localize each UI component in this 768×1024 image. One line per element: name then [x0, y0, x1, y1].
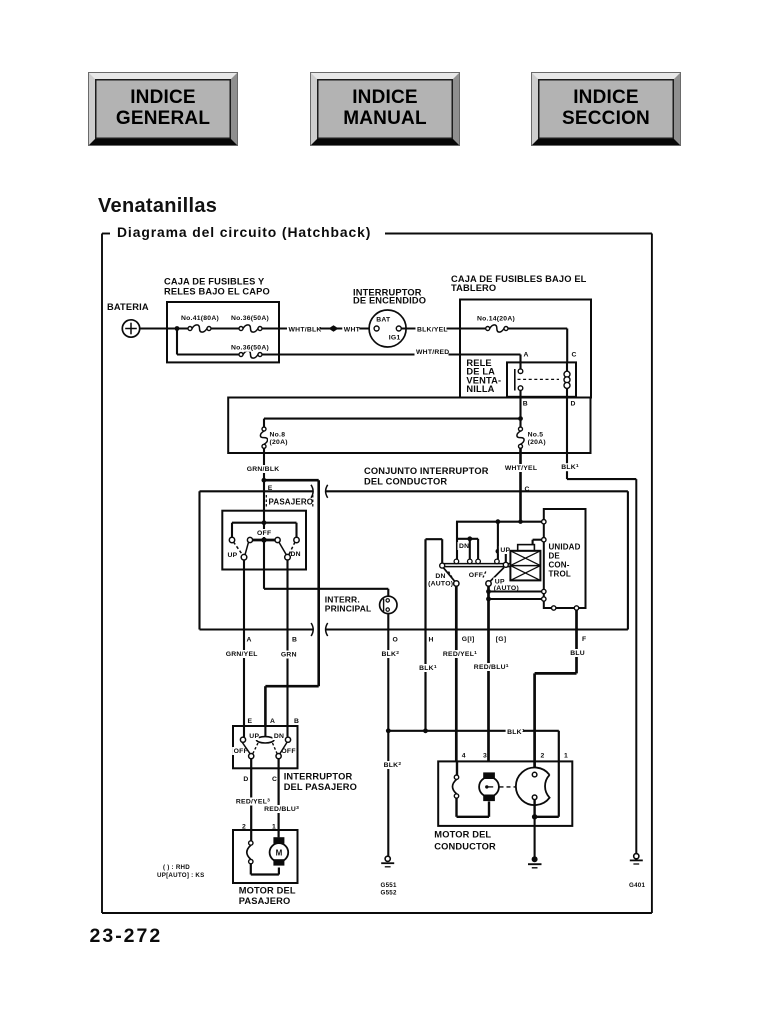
svg-text:UP: UP: [228, 552, 238, 559]
svg-text:UNIDAD: UNIDAD: [549, 543, 581, 552]
svg-text:GRN/BLK: GRN/BLK: [247, 466, 280, 473]
svg-text:(20A): (20A): [270, 439, 288, 446]
svg-text:23-272: 23-272: [90, 925, 163, 947]
svg-text:OFF: OFF: [257, 530, 271, 537]
svg-text:CON-: CON-: [549, 561, 570, 570]
svg-text:DE ENCENDIDO: DE ENCENDIDO: [353, 296, 426, 306]
svg-text:G551: G551: [381, 882, 397, 889]
svg-text:TROL: TROL: [549, 570, 571, 579]
svg-text:A: A: [270, 718, 275, 725]
svg-text:UP: UP: [249, 733, 259, 740]
svg-text:DEL PASAJERO: DEL PASAJERO: [284, 782, 357, 792]
svg-text:BAT: BAT: [376, 317, 391, 324]
svg-text:BATERIA: BATERIA: [107, 302, 149, 312]
svg-text:B: B: [292, 637, 297, 644]
svg-text:D: D: [571, 401, 576, 408]
svg-text:MOTOR DEL: MOTOR DEL: [239, 886, 296, 896]
svg-text:RED/YEL1: RED/YEL1: [443, 650, 477, 658]
svg-text:TABLERO: TABLERO: [451, 283, 496, 293]
svg-text:4: 4: [462, 753, 466, 760]
svg-text:M: M: [276, 848, 283, 857]
svg-text:MOTOR DEL: MOTOR DEL: [434, 829, 491, 839]
svg-text:[G]: [G]: [496, 636, 507, 643]
svg-text:WHT/YEL: WHT/YEL: [505, 465, 537, 472]
svg-text:Diagrama del circuito (Hatchba: Diagrama del circuito (Hatchback): [117, 224, 371, 240]
svg-text:DN: DN: [459, 543, 469, 550]
svg-text:RED/YEL3: RED/YEL3: [236, 797, 270, 805]
svg-text:1: 1: [564, 753, 568, 760]
svg-text:C: C: [272, 776, 277, 783]
svg-text:H: H: [429, 637, 434, 644]
svg-text:RED/BLU3: RED/BLU3: [264, 805, 299, 813]
svg-text:CONDUCTOR: CONDUCTOR: [434, 841, 496, 851]
svg-text:2: 2: [541, 753, 545, 760]
svg-text:RED/BLU1: RED/BLU1: [474, 663, 509, 671]
svg-text:D: D: [243, 776, 248, 783]
svg-text:PASAJERO: PASAJERO: [239, 896, 291, 906]
svg-text:( ) : RHD: ( ) : RHD: [163, 864, 190, 871]
svg-text:DN: DN: [435, 573, 445, 580]
svg-text:OFF: OFF: [469, 572, 483, 579]
svg-text:BLK/YEL: BLK/YEL: [417, 326, 448, 333]
svg-text:GRN: GRN: [281, 652, 297, 659]
svg-text:PASAJERO: PASAJERO: [269, 498, 314, 507]
svg-text:No.5: No.5: [528, 432, 544, 439]
svg-text:CAJA DE FUSIBLES Y: CAJA DE FUSIBLES Y: [164, 277, 265, 287]
svg-text:GRN/YEL: GRN/YEL: [226, 651, 258, 658]
svg-text:DEL CONDUCTOR: DEL CONDUCTOR: [364, 477, 447, 487]
svg-text:A: A: [247, 637, 252, 644]
svg-text:(20A): (20A): [528, 439, 546, 446]
svg-text:WHT/BLK: WHT/BLK: [289, 326, 322, 333]
svg-text:NILLA: NILLA: [466, 384, 494, 394]
svg-text:No.8: No.8: [270, 432, 286, 439]
svg-text:B: B: [294, 718, 299, 725]
svg-text:DE: DE: [549, 552, 561, 561]
svg-text:O: O: [393, 637, 399, 644]
svg-text:DN: DN: [274, 733, 284, 740]
svg-text:BLU: BLU: [570, 650, 585, 657]
svg-text:DN: DN: [291, 551, 301, 558]
svg-text:WHT/RED: WHT/RED: [416, 349, 449, 356]
svg-text:CONJUNTO INTERRUPTOR: CONJUNTO INTERRUPTOR: [364, 466, 489, 476]
svg-text:OFF: OFF: [234, 748, 248, 755]
svg-text:G[I]: G[I]: [462, 636, 475, 643]
svg-text:F: F: [582, 636, 586, 643]
svg-text:C: C: [572, 352, 577, 359]
svg-text:A: A: [524, 352, 529, 359]
svg-text:No.36(50A): No.36(50A): [231, 345, 269, 352]
svg-text:PRINCIPAL: PRINCIPAL: [325, 604, 372, 614]
svg-text:No.14(20A): No.14(20A): [477, 315, 515, 322]
svg-text:UP[AUTO] : KS: UP[AUTO] : KS: [157, 872, 204, 879]
svg-text:G401: G401: [629, 882, 645, 889]
svg-text:(AUTO): (AUTO): [428, 580, 453, 587]
svg-text:G552: G552: [381, 890, 397, 897]
svg-text:WHT: WHT: [344, 326, 361, 333]
svg-text:3: 3: [483, 753, 487, 760]
svg-text:No.41(80A): No.41(80A): [181, 315, 219, 322]
svg-text:UP: UP: [500, 547, 510, 554]
svg-text:IG1: IG1: [389, 335, 401, 342]
svg-text:B: B: [523, 401, 528, 408]
svg-text:No.36(50A): No.36(50A): [231, 315, 269, 322]
svg-text:RELES BAJO EL CAPO: RELES BAJO EL CAPO: [164, 287, 270, 297]
svg-text:INTERRUPTOR: INTERRUPTOR: [284, 772, 353, 782]
svg-text:E: E: [248, 718, 253, 725]
